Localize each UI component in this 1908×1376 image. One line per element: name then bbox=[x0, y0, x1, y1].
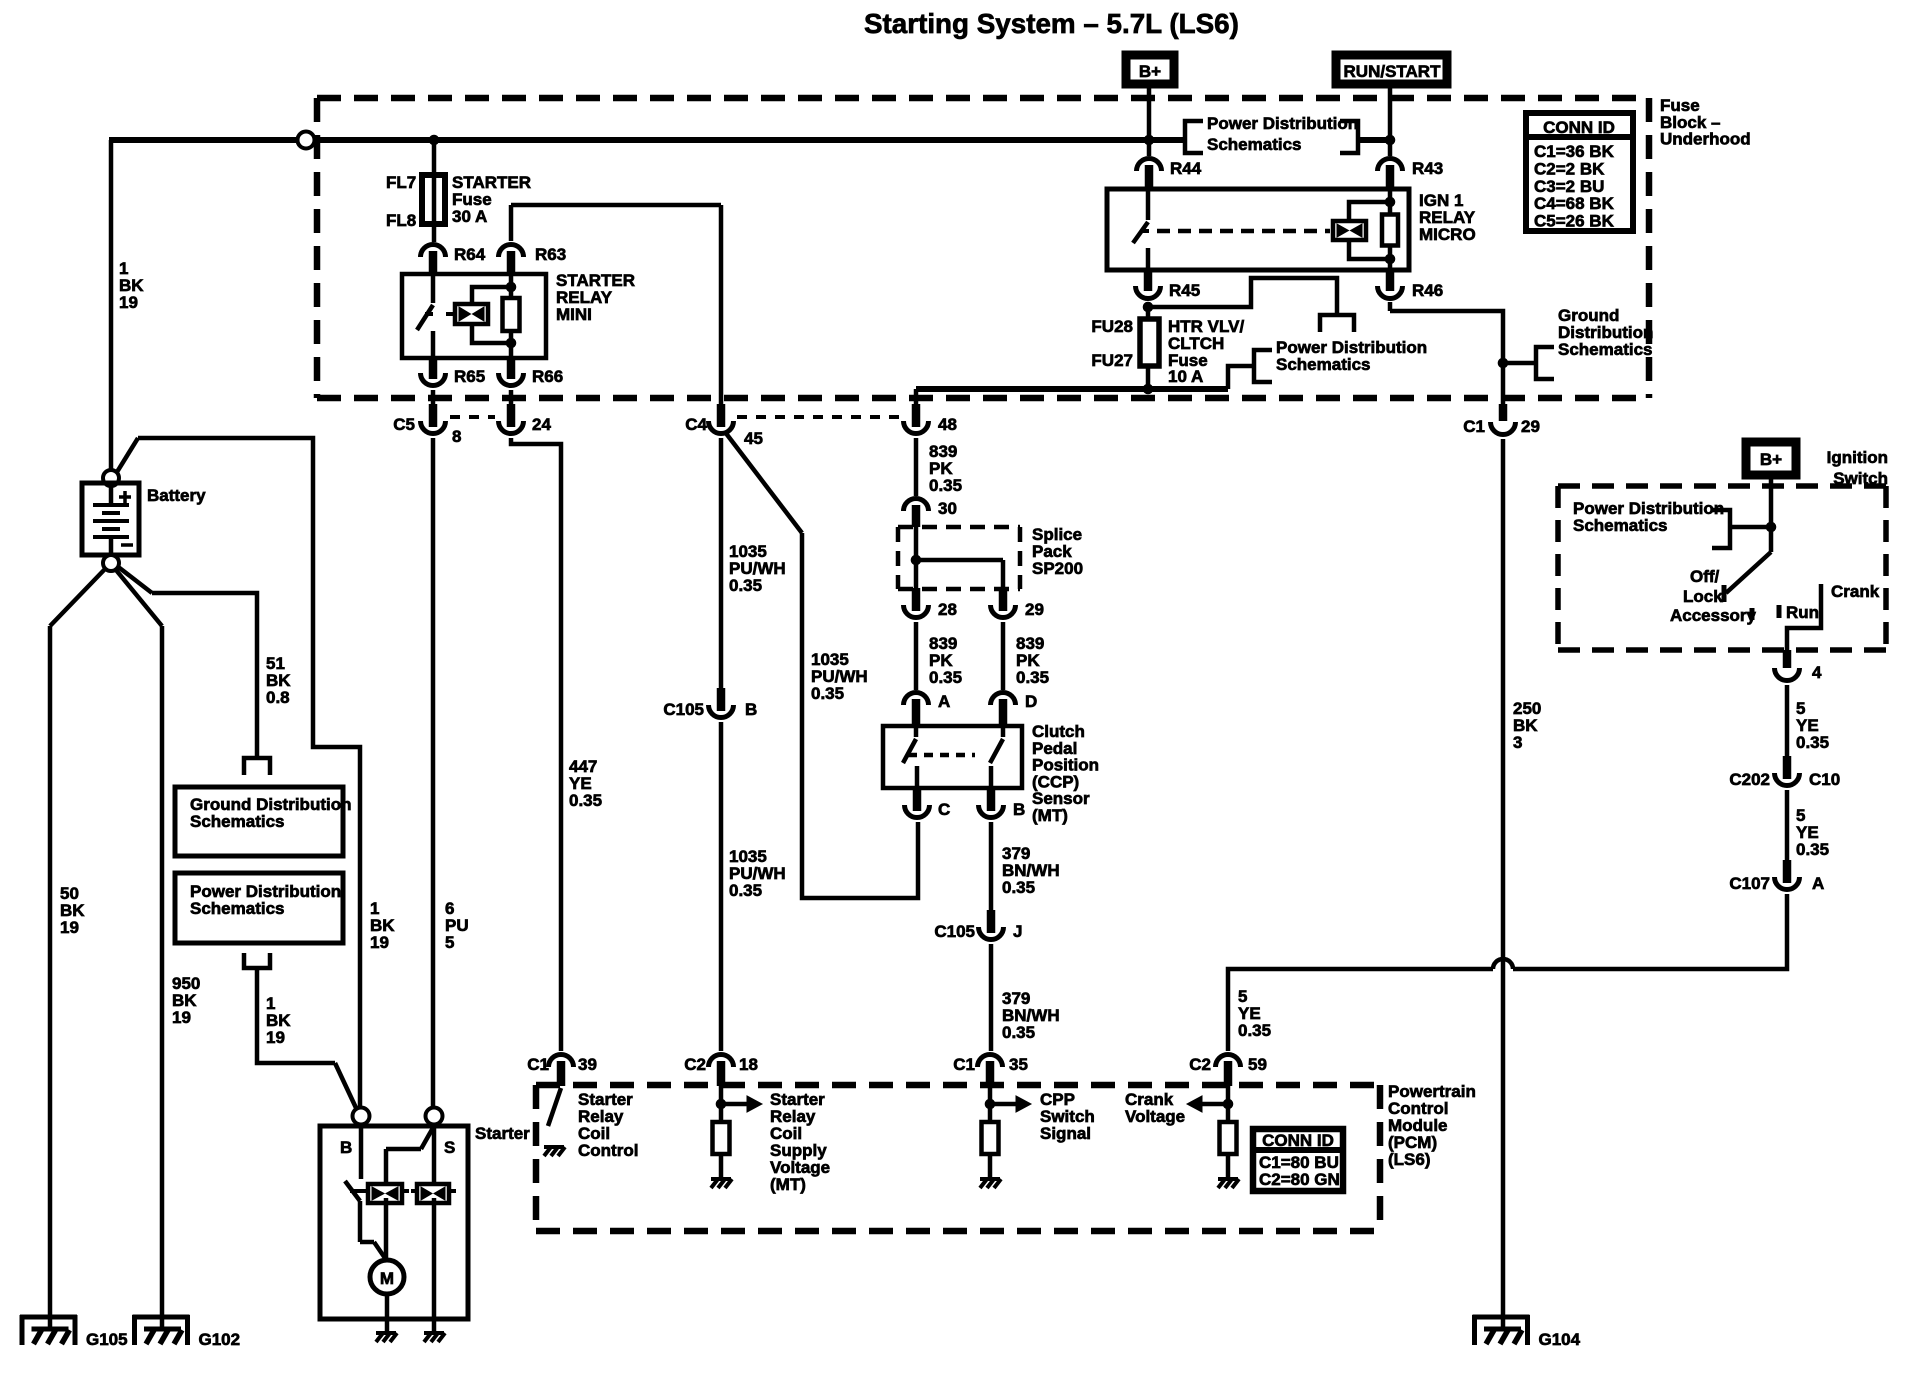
IGN 1 relay box bbox=[1107, 189, 1409, 270]
svg-text:C3=2 BU: C3=2 BU bbox=[1534, 177, 1604, 196]
wire battery positive to starter B riser bbox=[117, 438, 360, 1108]
connector R44 bbox=[1137, 158, 1202, 189]
svg-text:C2: C2 bbox=[1189, 1055, 1211, 1074]
label Powertrain Control Module PCM LS6 bbox=[1388, 1082, 1476, 1169]
svg-text:Battery: Battery bbox=[147, 486, 206, 505]
svg-text:MICRO: MICRO bbox=[1419, 225, 1476, 244]
svg-text:10 A: 10 A bbox=[1168, 367, 1203, 386]
junction dot ignition bbox=[1766, 522, 1776, 532]
svg-text:R64: R64 bbox=[454, 245, 486, 264]
svg-text:28: 28 bbox=[938, 600, 957, 619]
wire C4 down to C105 B bbox=[719, 438, 724, 690]
svg-text:(MT): (MT) bbox=[1032, 806, 1068, 825]
label wire 379 BN/WH 0.35 (lower) bbox=[1002, 989, 1060, 1042]
label FL7 bbox=[386, 173, 416, 192]
svg-text:0.35: 0.35 bbox=[1238, 1021, 1271, 1040]
junction dot coil bottom bbox=[506, 338, 516, 348]
svg-text:0.35: 0.35 bbox=[729, 576, 762, 595]
label wire 5 YE 0.35 (b) bbox=[1796, 806, 1829, 859]
reference bracket GDS bbox=[1536, 347, 1554, 379]
wire R45 to FU28 fuse bbox=[1146, 302, 1151, 319]
svg-text:0.35: 0.35 bbox=[1796, 733, 1829, 752]
svg-text:C105: C105 bbox=[934, 922, 975, 941]
label wire 839 PK 0.35 (c) bbox=[1016, 634, 1049, 687]
junction dot PCM 35 bbox=[985, 1099, 995, 1109]
svg-text:R46: R46 bbox=[1412, 281, 1443, 300]
battery bbox=[82, 483, 139, 555]
wire CCP B to C105 J bbox=[989, 822, 994, 912]
svg-text:0.35: 0.35 bbox=[1796, 840, 1829, 859]
label wire 50 BK 19 bbox=[60, 884, 85, 937]
label Splice Pack SP200 bbox=[1032, 525, 1083, 578]
CCP sensor box bbox=[883, 726, 1022, 788]
PCM starter relay coil control ground bbox=[544, 1147, 565, 1156]
svg-text:C1: C1 bbox=[1463, 417, 1485, 436]
svg-text:0.8: 0.8 bbox=[266, 688, 290, 707]
reference Power Distribution Schematics (top) bbox=[1185, 114, 1358, 154]
starter B terminal circle bbox=[353, 1108, 370, 1125]
label wire 1035 PU/WH 0.35 (diag) bbox=[811, 650, 868, 703]
wire battery negative to G102 bbox=[116, 570, 162, 1329]
label STARTER Fuse 30 A bbox=[452, 173, 531, 226]
svg-text:48: 48 bbox=[938, 415, 957, 434]
svg-text:G102: G102 bbox=[199, 1330, 241, 1349]
wire 24 to PCM C1 39 bbox=[511, 438, 561, 1051]
junction dot at RUN/START drop bbox=[1385, 135, 1395, 145]
svg-text:B: B bbox=[1013, 800, 1025, 819]
connector SP200 pin 28 bbox=[904, 588, 957, 619]
wire C5 pin 8 to starter S bbox=[431, 438, 436, 1108]
svg-text:R44: R44 bbox=[1170, 159, 1202, 178]
CONN ID table (PCM) bbox=[1250, 1129, 1346, 1191]
svg-text:C107: C107 bbox=[1729, 874, 1770, 893]
svg-text:Signal: Signal bbox=[1040, 1124, 1091, 1143]
svg-text:Schematics: Schematics bbox=[190, 899, 285, 918]
svg-text:19: 19 bbox=[172, 1008, 191, 1027]
svg-text:C1: C1 bbox=[953, 1055, 975, 1074]
junction dot coil top bbox=[506, 282, 516, 292]
starter relay box bbox=[402, 274, 546, 358]
svg-text:30 A: 30 A bbox=[452, 207, 487, 226]
label wire 5 YE 0.35 (c) bbox=[1238, 987, 1271, 1040]
junction dot FU27 bottom bbox=[1143, 384, 1153, 394]
connector link C4 bbox=[737, 415, 900, 419]
splice pack internal wires bbox=[916, 527, 1003, 590]
connector CCP pin B bbox=[979, 787, 1026, 819]
connector R66 bbox=[499, 357, 564, 386]
svg-text:24: 24 bbox=[532, 415, 551, 434]
svg-text:R63: R63 bbox=[535, 245, 566, 264]
fuse block underhood dashed border bbox=[317, 98, 1649, 398]
svg-text:0.35: 0.35 bbox=[929, 668, 962, 687]
svg-text:Off/: Off/ bbox=[1690, 567, 1720, 586]
label wire 1035 PU/WH 0.35 (lower) bbox=[729, 847, 786, 900]
svg-text:Control: Control bbox=[578, 1141, 638, 1160]
svg-text:(MT): (MT) bbox=[770, 1175, 806, 1194]
fuse FL7/FL8 STARTER 30A bbox=[422, 175, 445, 224]
PCM cpp switch internals bbox=[980, 1086, 1031, 1188]
contact tick Run bbox=[1777, 605, 1782, 618]
connector PCM C2 pin 18 bbox=[684, 1055, 758, 1087]
label wire 379 BN/WH 0.35 (upper) bbox=[1002, 844, 1060, 897]
fuse FU28/FU27 HTR VLV CLTCH 10A bbox=[1140, 319, 1159, 389]
wire 28 to CCP pin A bbox=[914, 622, 919, 690]
CONN ID table (fuse block) bbox=[1526, 113, 1633, 231]
wire pin 4 to C202 bbox=[1785, 685, 1790, 758]
svg-text:D: D bbox=[1025, 692, 1037, 711]
svg-text:0.35: 0.35 bbox=[1016, 668, 1049, 687]
label wire 839 PK 0.35 (b) bbox=[929, 634, 962, 687]
connector CCP pin D bbox=[991, 692, 1038, 726]
svg-text:0.35: 0.35 bbox=[729, 881, 762, 900]
label wire 51 BK 0.8 bbox=[266, 654, 291, 707]
svg-text:Ignition: Ignition bbox=[1827, 448, 1888, 467]
svg-text:Starter: Starter bbox=[475, 1124, 530, 1143]
starter relay switch bbox=[417, 274, 433, 358]
CCP switch right bbox=[990, 726, 1003, 788]
svg-text:Crank: Crank bbox=[1831, 582, 1880, 601]
svg-text:C202: C202 bbox=[1729, 770, 1770, 789]
wire ignition B+ down bbox=[1769, 475, 1774, 552]
IGN 1 relay coil bbox=[1333, 202, 1388, 259]
svg-text:19: 19 bbox=[60, 918, 79, 937]
label Starter Relay Coil Supply Voltage MT bbox=[770, 1090, 830, 1194]
svg-text:Power Distribution: Power Distribution bbox=[1207, 114, 1358, 133]
connector C1 pin 29 bbox=[1463, 404, 1540, 436]
label Run bbox=[1786, 603, 1819, 622]
connector SP200 pin 30 bbox=[904, 498, 957, 527]
svg-text:4: 4 bbox=[1812, 663, 1822, 682]
wire battery negative to ground distribution bbox=[117, 566, 257, 758]
svg-text:M: M bbox=[380, 1269, 394, 1288]
svg-text:45: 45 bbox=[744, 429, 763, 448]
svg-text:FU27: FU27 bbox=[1091, 351, 1133, 370]
ignition switch dashed box bbox=[1558, 486, 1886, 650]
svg-text:C: C bbox=[938, 800, 950, 819]
label STARTER RELAY MINI bbox=[556, 271, 635, 324]
svg-text:(LS6): (LS6) bbox=[1388, 1150, 1431, 1169]
label Crank bbox=[1831, 582, 1880, 601]
wire 29 to CCP pin D bbox=[1001, 622, 1006, 690]
battery negative terminal circle bbox=[103, 555, 119, 571]
label Power Distribution Schematics (mid) bbox=[1276, 338, 1427, 374]
wire to GDS reference bbox=[1503, 361, 1536, 366]
wire R45 to PDS reference bbox=[1148, 278, 1337, 315]
junction dot IGN coil top bbox=[1385, 197, 1395, 207]
PCM dashed border bbox=[536, 1085, 1380, 1231]
svg-text:0.35: 0.35 bbox=[1002, 1023, 1035, 1042]
label wire 1 BK 19 (battery feed) bbox=[119, 259, 144, 312]
svg-text:A: A bbox=[1812, 874, 1824, 893]
wire bus down to battery positive bbox=[109, 140, 114, 470]
svg-text:B+: B+ bbox=[1760, 450, 1782, 469]
reference bracket from Power Distribution box bbox=[244, 953, 270, 968]
svg-text:J: J bbox=[1013, 922, 1022, 941]
svg-text:Accessory: Accessory bbox=[1670, 606, 1757, 625]
wire fuse output bus bbox=[916, 366, 1252, 389]
svg-text:3: 3 bbox=[1513, 733, 1522, 752]
junction dot SP200 bbox=[911, 555, 921, 565]
connector link C5 bbox=[450, 415, 495, 419]
svg-text:CONN ID: CONN ID bbox=[1262, 1131, 1334, 1150]
label FU27 bbox=[1091, 351, 1133, 370]
svg-text:29: 29 bbox=[1025, 600, 1044, 619]
page connector circle on bus bbox=[298, 132, 315, 149]
svg-text:Schematics: Schematics bbox=[1276, 355, 1371, 374]
svg-text:G104: G104 bbox=[1539, 1330, 1581, 1349]
svg-text:FL8: FL8 bbox=[386, 211, 416, 230]
label Starter Relay Coil Control bbox=[578, 1090, 638, 1160]
svg-text:C1: C1 bbox=[527, 1055, 549, 1074]
label Off/ Lock Accessory bbox=[1670, 567, 1757, 625]
wire R46 to C1 pin 29 bbox=[1390, 302, 1503, 404]
CCP switch left bbox=[903, 726, 917, 788]
label Battery bbox=[147, 486, 206, 505]
svg-text:R66: R66 bbox=[532, 367, 563, 386]
junction dot R46 branch bbox=[1498, 358, 1508, 368]
svg-text:0.35: 0.35 bbox=[1002, 878, 1035, 897]
svg-text:FL7: FL7 bbox=[386, 173, 416, 192]
label wire 1 BK 19 (PDS) bbox=[266, 994, 291, 1047]
IGN 1 relay switch bbox=[1133, 189, 1149, 270]
label Starter bbox=[475, 1124, 530, 1143]
svg-text:R43: R43 bbox=[1412, 159, 1443, 178]
label terminal B bbox=[340, 1138, 352, 1157]
starter motor ground bbox=[376, 1333, 397, 1342]
wire Power Distribution box to starter B bbox=[257, 968, 357, 1110]
label CPP Switch Signal bbox=[1040, 1090, 1095, 1143]
svg-text:C105: C105 bbox=[663, 700, 704, 719]
ground G104 bbox=[1473, 1315, 1581, 1349]
label Crank Voltage bbox=[1125, 1090, 1185, 1126]
starter S terminal circle bbox=[426, 1108, 443, 1125]
svg-text:G105: G105 bbox=[86, 1330, 128, 1349]
ground G102 bbox=[133, 1315, 241, 1349]
connector C105 pin B bbox=[663, 688, 757, 719]
svg-text:C2: C2 bbox=[684, 1055, 706, 1074]
connector C4 pin 48 bbox=[904, 389, 957, 434]
svg-text:RUN/START: RUN/START bbox=[1344, 62, 1442, 81]
starter box bbox=[320, 1126, 468, 1319]
reference bracket PDS (mid) bbox=[1320, 315, 1354, 332]
svg-text:B+: B+ bbox=[1139, 62, 1161, 81]
reference bracket to Ground Distribution box bbox=[244, 758, 270, 775]
svg-text:SP200: SP200 bbox=[1032, 559, 1083, 578]
label FU28 bbox=[1091, 317, 1133, 336]
IGN 1 relay resistor bbox=[1382, 189, 1398, 270]
label Clutch Pedal Position CCP Sensor MT bbox=[1032, 722, 1099, 825]
svg-text:C4: C4 bbox=[685, 415, 707, 434]
svg-text:C4=68 BK: C4=68 BK bbox=[1534, 194, 1615, 213]
wire main B+ bus bbox=[109, 137, 1390, 143]
label wire 5 YE 0.35 (a) bbox=[1796, 699, 1829, 752]
svg-text:A: A bbox=[938, 692, 950, 711]
connector R43 bbox=[1378, 158, 1444, 189]
svg-text:29: 29 bbox=[1521, 417, 1540, 436]
svg-text:C5: C5 bbox=[393, 415, 415, 434]
connector C107 pin A bbox=[1729, 860, 1824, 893]
svg-text:0.35: 0.35 bbox=[929, 476, 962, 495]
wire RUN/START to R43 bbox=[1388, 84, 1393, 156]
wire bus to starter fuse bbox=[432, 140, 437, 242]
PCM starter relay coil control switch bbox=[548, 1088, 561, 1126]
connector SP200 pin 29 bbox=[991, 588, 1044, 619]
terminal B+ (ignition switch) bbox=[1746, 442, 1796, 475]
svg-text:8: 8 bbox=[452, 427, 461, 446]
label wire 447 YE 0.35 bbox=[569, 757, 602, 810]
label terminal S bbox=[444, 1138, 455, 1157]
connector C105 pin J bbox=[934, 910, 1022, 941]
svg-text:0.35: 0.35 bbox=[569, 791, 602, 810]
connector R64 bbox=[421, 245, 486, 276]
ignition switch blade bbox=[1724, 552, 1771, 602]
svg-text:MINI: MINI bbox=[556, 305, 592, 324]
starter solenoid ground bbox=[424, 1333, 445, 1342]
svg-text:Underhood: Underhood bbox=[1660, 130, 1751, 149]
svg-text:R65: R65 bbox=[454, 367, 485, 386]
svg-text:S: S bbox=[444, 1138, 455, 1157]
connector R45 bbox=[1136, 269, 1201, 300]
wire 48 to splice pack bbox=[914, 438, 919, 496]
title bbox=[864, 8, 1239, 39]
connector R63 bbox=[499, 245, 567, 276]
starter relay coil bbox=[446, 287, 509, 343]
svg-text:Starting System – 5.7L (LS6): Starting System – 5.7L (LS6) bbox=[864, 8, 1239, 39]
connector CCP pin A bbox=[904, 692, 951, 726]
wire B+ to R44 bbox=[1147, 84, 1152, 156]
box Power Distribution Schematics bbox=[175, 873, 343, 943]
connector C5 pin 8 bbox=[393, 390, 461, 446]
connector C202 pin C10 bbox=[1729, 756, 1840, 789]
svg-text:Schematics: Schematics bbox=[1207, 135, 1302, 154]
svg-text:Lock: Lock bbox=[1683, 587, 1723, 606]
junction dot at B+ drop bbox=[1144, 135, 1154, 145]
terminal RUN/START bbox=[1336, 55, 1447, 84]
wire C1 29 to G104 bbox=[1501, 439, 1506, 1329]
connector ignition pin 4 bbox=[1775, 650, 1823, 682]
svg-text:19: 19 bbox=[119, 293, 138, 312]
starter motor M bbox=[370, 1260, 404, 1294]
label IGN 1 RELAY MICRO bbox=[1419, 191, 1476, 244]
svg-text:18: 18 bbox=[739, 1055, 758, 1074]
starter solenoid switch S bbox=[386, 1126, 434, 1184]
svg-text:C2=80 GN: C2=80 GN bbox=[1259, 1170, 1340, 1189]
svg-text:35: 35 bbox=[1009, 1055, 1028, 1074]
svg-text:FU28: FU28 bbox=[1091, 317, 1133, 336]
connector PCM C1 pin 39 bbox=[527, 1055, 597, 1087]
connector R46 bbox=[1378, 269, 1444, 300]
svg-text:C10: C10 bbox=[1809, 770, 1840, 789]
starter solenoid coil 2 bbox=[411, 1125, 456, 1333]
svg-text:19: 19 bbox=[266, 1028, 285, 1047]
label wire 1035 PU/WH 0.35 (upper) bbox=[729, 542, 786, 595]
CCP switch dashed link bbox=[908, 753, 975, 758]
svg-text:5: 5 bbox=[445, 933, 454, 952]
ignition Crank contact bbox=[1787, 584, 1821, 653]
svg-text:B: B bbox=[745, 700, 757, 719]
junction dot PCM 18 bbox=[716, 1099, 726, 1109]
svg-text:CONN ID: CONN ID bbox=[1543, 118, 1615, 137]
wire motor to ground bbox=[385, 1294, 390, 1333]
starter solenoid coil 1 bbox=[350, 1184, 409, 1261]
label Ignition Switch bbox=[1827, 448, 1888, 488]
label wire 950 BK 19 bbox=[172, 974, 200, 1027]
svg-text:C5=26 BK: C5=26 BK bbox=[1534, 212, 1615, 231]
terminal B+ (fuse block) bbox=[1126, 55, 1174, 84]
junction dot PCM 59 bbox=[1223, 1099, 1233, 1109]
PCM crank voltage internals bbox=[1187, 1086, 1239, 1188]
svg-text:B: B bbox=[340, 1138, 352, 1157]
svg-text:Schematics: Schematics bbox=[1573, 516, 1668, 535]
connector PCM C1 pin 35 bbox=[953, 1055, 1028, 1087]
wire C107 to PCM crank voltage bbox=[1228, 894, 1787, 1051]
label wire 6 PU 5 bbox=[445, 899, 469, 952]
PCM crank relay supply internals bbox=[711, 1086, 762, 1188]
wire C4 pin 45 to CCP pin C bbox=[725, 432, 918, 898]
label Ground Distribution Schematics bbox=[1558, 306, 1653, 359]
svg-text:0.35: 0.35 bbox=[811, 684, 844, 703]
label wire 839 PK 0.35 (a) bbox=[929, 442, 962, 495]
svg-text:Schematics: Schematics bbox=[1558, 340, 1653, 359]
wire C105 J to PCM C1 35 bbox=[989, 944, 994, 1051]
svg-text:Run: Run bbox=[1786, 603, 1819, 622]
svg-text:19: 19 bbox=[370, 933, 389, 952]
junction dot at starter fuse tap bbox=[429, 135, 439, 145]
svg-text:30: 30 bbox=[938, 499, 957, 518]
connector C4 pin 45 bbox=[685, 404, 763, 448]
connector PCM C2 pin 59 bbox=[1189, 1055, 1267, 1087]
svg-text:59: 59 bbox=[1248, 1055, 1267, 1074]
box Ground Distribution Schematics bbox=[175, 787, 351, 856]
battery positive terminal circle bbox=[103, 470, 119, 486]
svg-text:39: 39 bbox=[578, 1055, 597, 1074]
svg-text:Schematics: Schematics bbox=[190, 812, 285, 831]
label Fuse Block Underhood bbox=[1660, 96, 1751, 149]
reference bracket PDS (lower) bbox=[1254, 350, 1272, 382]
connector R65 bbox=[421, 357, 486, 386]
junction dot IGN coil bottom bbox=[1385, 254, 1395, 264]
starter switch B bbox=[345, 1125, 387, 1261]
junction dot R45 bbox=[1143, 302, 1153, 312]
ground G105 bbox=[20, 1315, 128, 1349]
wire C202 to C107 bbox=[1785, 790, 1790, 862]
svg-text:C2=2 BK: C2=2 BK bbox=[1534, 159, 1605, 178]
starter relay resistor bbox=[503, 274, 520, 358]
splice pack SP200 dashed box bbox=[898, 527, 1020, 589]
label wire 250 BK 3 bbox=[1513, 699, 1541, 752]
label HTR VLV CLTCH Fuse 10 A bbox=[1168, 317, 1244, 386]
svg-text:C1=36 BK: C1=36 BK bbox=[1534, 142, 1615, 161]
wire C105 B to PCM C2 18 bbox=[719, 722, 724, 1051]
connector CCP pin C bbox=[905, 787, 951, 819]
svg-text:R45: R45 bbox=[1169, 281, 1200, 300]
IGN 1 relay actuation dashed link bbox=[1157, 229, 1330, 234]
contact tick Accessory bbox=[1750, 608, 1755, 620]
wire battery negative to G105 bbox=[50, 569, 105, 1329]
reference PDS (ignition) bbox=[1573, 499, 1771, 548]
label wire 1 BK 19 (starter B) bbox=[370, 899, 395, 952]
wire R63 feed from C4 riser bbox=[511, 205, 721, 404]
label FL8 bbox=[386, 211, 416, 230]
svg-text:Voltage: Voltage bbox=[1125, 1107, 1185, 1126]
connector C5 pin 24 bbox=[499, 390, 552, 434]
